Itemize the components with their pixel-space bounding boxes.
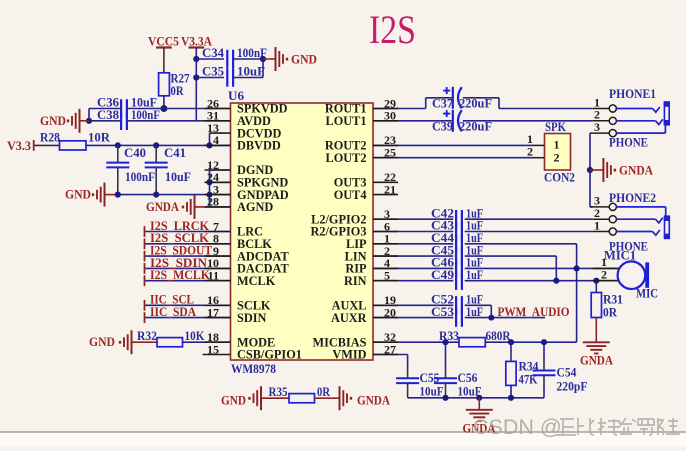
wire pin13 branch [209, 133, 211, 145]
capacitor C38 [97, 108, 160, 130]
ground GNDA bottom center [463, 398, 496, 436]
capacitor C37 [432, 87, 492, 111]
capacitor C34 [202, 46, 267, 68]
svg-text:GNDA: GNDA [619, 163, 653, 177]
wire C53 to PWM_AUDIO [465, 317, 545, 319]
capacitor C39 [432, 110, 492, 134]
pin 21 stub [373, 194, 398, 196]
net I2S_SDIN wire pin [144, 256, 231, 274]
svg-text:1uF: 1uF [466, 268, 483, 282]
node C54 top [541, 339, 547, 345]
capacitor C41 [145, 145, 191, 194]
svg-text:GNDA: GNDA [357, 393, 390, 407]
wire C44 branch [465, 244, 577, 342]
node pin3 gnd [207, 192, 213, 198]
node C41 bottom [153, 192, 159, 198]
node rail/C34 [193, 56, 199, 62]
svg-text:C37: C37 [432, 96, 453, 110]
svg-text:WM8978: WM8978 [231, 362, 276, 376]
capacitor C46 [431, 256, 483, 278]
svg-text:I2S: I2S [369, 7, 416, 52]
svg-text:1uF: 1uF [466, 305, 483, 319]
svg-text:C54: C54 [557, 366, 577, 380]
wire R33 to mic bias [485, 341, 576, 343]
resistor R32 [137, 329, 205, 347]
node C38/GND join [86, 118, 92, 124]
svg-text:GNDA: GNDA [580, 354, 613, 368]
svg-text:CSDN @: CSDN @ [473, 415, 562, 439]
svg-text:R28: R28 [40, 131, 60, 145]
svg-text:PHONE: PHONE [609, 136, 648, 150]
wire pin row C43 left [373, 231, 453, 233]
connector CON2 SPK [527, 120, 575, 184]
svg-text:10R: 10R [88, 131, 110, 145]
ground GNDA at phones [590, 158, 653, 182]
svg-text:LOUT1: LOUT1 [326, 114, 367, 128]
wire V3.3A rail down to pin 31 [196, 59, 230, 121]
svg-text:2: 2 [554, 151, 560, 165]
wire pin row C49 left [373, 280, 453, 282]
svg-text:MIC: MIC [636, 286, 658, 300]
svg-text:CSB/GPIO1: CSB/GPIO1 [237, 348, 302, 362]
node PWM_AUDIO [488, 315, 494, 321]
wire VMID to C55 [373, 355, 408, 379]
resistor R35 [269, 385, 331, 403]
svg-text:V3.3: V3.3 [7, 139, 31, 153]
net I2S_LRCK wire pin [144, 219, 231, 237]
wire phone ground link [590, 133, 593, 207]
resistor R27 [159, 72, 190, 98]
svg-text:RIN: RIN [344, 274, 367, 288]
net IIC_SCL wire pin [144, 293, 231, 311]
microphone MIC1 [593, 248, 658, 300]
pin 15 stub [203, 354, 231, 356]
svg-text:PWM_AUDIO: PWM_AUDIO [498, 305, 570, 319]
svg-text:C53: C53 [431, 305, 454, 319]
power VCC5 [148, 35, 179, 73]
svg-text:PHONE1: PHONE1 [609, 87, 656, 101]
pin numbers of U6 [207, 96, 396, 356]
svg-text:IIC_SDA: IIC_SDA [150, 305, 196, 319]
ground GND at R32 [89, 330, 157, 354]
ground GND at R35 [221, 386, 289, 410]
svg-text:C35: C35 [202, 65, 224, 79]
svg-text:0R: 0R [603, 306, 617, 320]
wire pin row C45 left [373, 255, 453, 257]
label PHONE lower [609, 239, 648, 253]
capacitor C36 [97, 96, 157, 118]
svg-text:AUXR: AUXR [331, 311, 367, 325]
wire C45 branch [465, 256, 557, 281]
net I2S_MCLK wire pin [144, 268, 231, 286]
wire bottom rail [408, 397, 544, 399]
wire C49 to MIC pin2 [465, 280, 619, 282]
svg-text:GND: GND [65, 188, 91, 202]
capacitor C45 [431, 243, 483, 265]
wire V3.3 to R28 [35, 144, 60, 146]
ground GND below C40 [65, 183, 118, 207]
svg-text:220uF: 220uF [459, 120, 492, 134]
capacitor C40 [106, 145, 155, 194]
wire GND row to pin 3 [118, 194, 210, 196]
svg-text:C34: C34 [202, 46, 224, 60]
svg-text:C39: C39 [432, 120, 453, 134]
wire pin19 to C52 [373, 304, 453, 306]
wire R31 to GNDA [595, 318, 597, 343]
svg-text:I2S_MCLK: I2S_MCLK [150, 268, 210, 282]
wire C52 drop to C53 row [465, 305, 492, 317]
capacitor C52 [431, 293, 483, 315]
svg-text:CON2: CON2 [544, 170, 575, 184]
node C35/C34 join [260, 56, 266, 62]
svg-text:PHONE2: PHONE2 [609, 191, 656, 205]
svg-text:R33: R33 [439, 329, 459, 343]
node R27/pin26 [160, 105, 167, 112]
wire to GND top right [263, 58, 276, 60]
wire pin row C42 left [373, 218, 453, 220]
node mic1 bias [574, 265, 580, 271]
svg-text:R32: R32 [137, 329, 157, 343]
svg-text:10K: 10K [185, 329, 205, 343]
svg-text:SDIN: SDIN [237, 311, 267, 325]
svg-text:DBVDD: DBVDD [237, 139, 281, 153]
svg-text:VMID: VMID [332, 348, 366, 362]
node C40 bottom [115, 192, 121, 198]
title I2S [369, 7, 416, 52]
net IIC_SDA wire pin [144, 305, 231, 323]
ground GND left of C36 [40, 109, 89, 133]
svg-text:GND: GND [291, 53, 317, 67]
connector PHONE1 pins [593, 87, 656, 137]
IC U6 WM8978 codec body [228, 89, 373, 376]
wire C35 row [196, 59, 263, 78]
capacitor C43 [431, 219, 483, 241]
svg-text:GND: GND [89, 335, 115, 349]
net PWM_AUDIO [498, 305, 570, 319]
capacitor C35 [202, 65, 265, 87]
capacitor C49 [431, 268, 483, 290]
wire pin26 row [128, 108, 230, 110]
capacitor C42 [431, 206, 483, 228]
svg-text:R35: R35 [269, 385, 288, 399]
svg-text:2: 2 [601, 268, 607, 282]
ground GNDA pin28 [146, 195, 231, 219]
wire C42 to PHONE2 pin2 [465, 218, 593, 220]
wire R28 to pin 4 [86, 144, 231, 146]
svg-text:OUT4: OUT4 [334, 188, 367, 202]
net I2S_SCLK wire pin [144, 231, 231, 249]
resistor R34 [506, 342, 539, 386]
wire C39 to PHONE1 pin2 [463, 120, 593, 122]
wire mic2 to R31 [595, 281, 597, 293]
jack PHONE1 symbol [616, 102, 669, 133]
svg-text:GND: GND [40, 114, 66, 128]
svg-text:10uF: 10uF [420, 385, 444, 399]
node rail/C35 [193, 74, 199, 80]
wire pin32 to R33 [373, 341, 459, 343]
port V3.3 [7, 139, 35, 153]
svg-text:0R: 0R [171, 84, 184, 98]
wire C46 to MIC pin1 [465, 267, 619, 269]
node pin24 [206, 179, 212, 185]
resistor R31 [591, 293, 623, 320]
net I2S_SDOUT wire pin [144, 244, 231, 262]
svg-text:C49: C49 [431, 268, 454, 282]
wire pin23 to CON2 [373, 144, 533, 146]
wire R35 to GNDA [315, 397, 340, 399]
ground GNDA at R35 [340, 386, 391, 410]
node C56 top [442, 339, 448, 345]
capacitor C56 [434, 342, 482, 398]
svg-text:VCC5: VCC5 [148, 35, 179, 49]
power V3.3A [181, 35, 212, 60]
wire C38 left [89, 109, 120, 121]
wire C36 left [89, 108, 120, 110]
wire pin25 to CON2 [373, 157, 533, 159]
svg-text:MIC1: MIC1 [604, 248, 636, 262]
svg-text:220pF: 220pF [557, 380, 588, 394]
svg-text:C38: C38 [97, 108, 119, 122]
pin 13 stub [210, 132, 231, 134]
svg-text:10uF: 10uF [165, 170, 191, 184]
svg-text:AGND: AGND [237, 200, 273, 214]
ground GND top-right [276, 47, 318, 71]
capacitor C44 [431, 231, 483, 253]
svg-text:100nF: 100nF [125, 170, 155, 184]
wire pin row C46 left [373, 267, 453, 269]
wire C38 row to rail [128, 120, 196, 122]
svg-text:100nF: 100nF [131, 108, 160, 122]
node C40 top [115, 142, 121, 148]
node R31 tap [593, 278, 599, 284]
wire pin20 to C53 [373, 317, 453, 319]
svg-text:C56: C56 [458, 371, 478, 385]
resistor R28 [40, 131, 110, 150]
connector PHONE2 pins [590, 191, 656, 235]
node pin13 branch [206, 142, 212, 148]
svg-text:MCLK: MCLK [237, 274, 276, 288]
svg-text:GND: GND [221, 393, 246, 407]
node C56 bottom [442, 395, 448, 401]
wire C37 to PHONE1 pin1 [463, 98, 593, 109]
capacitor C55 [396, 371, 443, 399]
svg-text:1: 1 [554, 138, 560, 152]
wire C43 to PHONE2 pin1 [465, 231, 593, 233]
node gnda drop [476, 395, 482, 401]
wire C34 row [196, 58, 263, 60]
pin stubs of U6 [205, 109, 399, 355]
capacitor C54 [533, 342, 588, 398]
node C45/RIN join [553, 278, 559, 284]
ground GNDA below R31 [580, 342, 613, 367]
svg-text:0R: 0R [317, 385, 330, 399]
svg-text:GNDA: GNDA [146, 200, 179, 214]
svg-text:1: 1 [594, 218, 600, 232]
node phone gnda [587, 167, 593, 173]
wire R27 to SPKVDD row [163, 96, 165, 109]
node R34 top [508, 339, 514, 345]
wire pin29 to C37 [373, 98, 452, 109]
wire R32 to pin 18 [183, 341, 231, 343]
node C41 top [153, 142, 159, 148]
svg-text:680R: 680R [486, 329, 511, 343]
svg-text:LOUT2: LOUT2 [326, 151, 367, 165]
watermark [473, 415, 680, 439]
svg-text:R31: R31 [603, 293, 623, 307]
capacitor C53 [431, 305, 483, 327]
svg-text:3: 3 [594, 120, 600, 134]
pin 22 stub [373, 181, 398, 183]
wire pin30 to C39 [373, 120, 452, 122]
wire R34 bottom [510, 385, 512, 397]
node R34 bottom [508, 395, 514, 401]
svg-text:10uF: 10uF [237, 65, 265, 79]
wire pin row C44 left [373, 243, 453, 245]
svg-text:2: 2 [527, 145, 533, 159]
label PHONE upper [609, 136, 648, 150]
svg-text:C41: C41 [164, 146, 186, 160]
wire ground bus pins 12-28 [210, 170, 231, 207]
svg-text:C40: C40 [124, 146, 146, 160]
resistor R33 [439, 329, 511, 347]
svg-text:SPK: SPK [545, 120, 566, 134]
jack PHONE2 symbol [616, 207, 670, 239]
